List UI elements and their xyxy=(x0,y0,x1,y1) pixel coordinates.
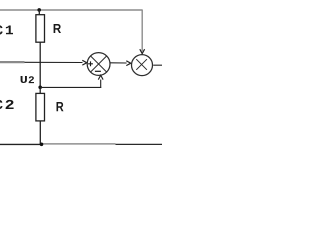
wire resistor bottom down to bottom rail xyxy=(39,121,41,144)
wire stub dot to resistor R top xyxy=(38,10,40,15)
summing junction diagonal NW-SE xyxy=(91,56,107,72)
wire bottom rail left (black) xyxy=(0,143,43,145)
resistor R (bottom) xyxy=(36,93,45,121)
wire summing junction to multiplier xyxy=(110,62,127,64)
multiplier X stroke 2 xyxy=(136,59,147,70)
arrowhead into multiplier left xyxy=(126,61,131,66)
summing junction diagonal NE-SW xyxy=(91,56,107,72)
arrowhead into multiplier top xyxy=(140,49,145,53)
label C1 glyph C xyxy=(0,25,3,34)
label U2 glyph 2 xyxy=(29,76,34,83)
wire bottom rail right (black) xyxy=(116,143,163,145)
resistor R (top) xyxy=(36,15,45,43)
junction node dot bottom xyxy=(40,143,44,147)
junction node dot top xyxy=(37,8,41,12)
label C1 glyph 1 xyxy=(6,26,13,35)
multiplier circle xyxy=(132,55,153,76)
wire stub node U2 to resistor top xyxy=(39,87,41,93)
wire top-right vertical drop to multiplier xyxy=(141,10,143,52)
label C2 glyph C xyxy=(0,100,3,109)
wire input (thick gray stub at left edge) xyxy=(0,61,25,63)
summing junction circle xyxy=(87,53,110,76)
multiplier X stroke 1 xyxy=(136,59,147,70)
arrowhead into summing junction left xyxy=(82,60,87,65)
wire feedback riser up to summing junction xyxy=(100,80,102,88)
label C2 glyph 2 xyxy=(6,100,14,109)
wire top horizontal xyxy=(0,9,143,11)
junction node dot U2 xyxy=(38,86,42,90)
label R top xyxy=(54,24,61,33)
wire bottom rail middle (gray) xyxy=(43,143,116,145)
wire input to summing junction xyxy=(25,61,83,63)
minus sign in summing junction xyxy=(95,70,101,72)
wire feedback horizontal from node to riser xyxy=(40,86,101,88)
wire multiplier output right xyxy=(153,64,162,66)
arrowhead into summing junction bottom xyxy=(98,75,103,79)
label U2 glyph U xyxy=(21,76,27,83)
plus sign in summing junction xyxy=(88,61,93,66)
label R bottom xyxy=(56,102,63,111)
wire resistor R bottom down to node U2 xyxy=(39,42,41,87)
